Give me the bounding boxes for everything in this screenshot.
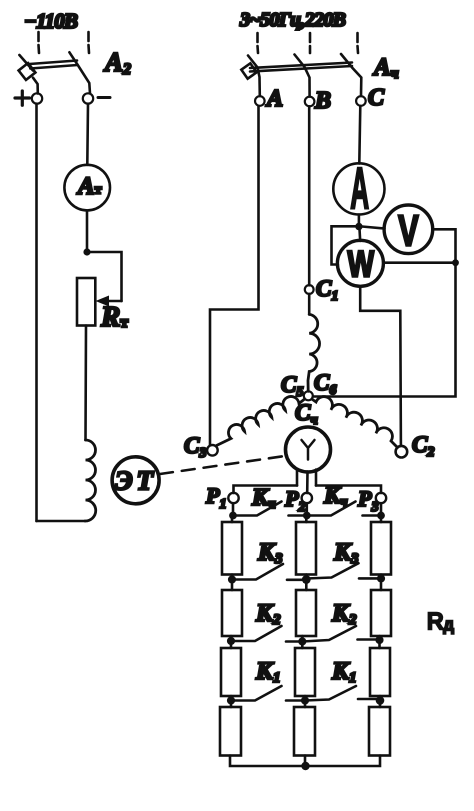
wire W voltage loop left <box>332 226 356 264</box>
supply dash left <box>37 32 40 53</box>
wire phase A down <box>210 106 259 445</box>
wires dots to resistors row1 <box>232 519 381 522</box>
wire A to dot <box>358 215 361 225</box>
dots K2 row <box>227 636 384 646</box>
terminal P2 <box>284 486 312 515</box>
wire C1 to coil <box>308 294 311 315</box>
terminal C3 <box>184 433 218 461</box>
rotor bus right <box>316 486 381 494</box>
wire phase B down <box>308 106 311 285</box>
contact K1 a <box>231 686 305 701</box>
wire ammeter to dot <box>86 210 89 250</box>
supply dash B <box>309 33 312 53</box>
terminal phase C <box>356 85 385 111</box>
wire rheostat to coil <box>84 326 87 441</box>
stator coil B (3 bumps) <box>308 314 320 391</box>
stator coil left (slanted) <box>217 397 305 446</box>
wire tap: right and down <box>87 252 122 301</box>
terminal P3 <box>357 486 386 515</box>
resistor bank row 2 <box>222 590 391 636</box>
motor Y <box>286 427 331 472</box>
tap arrow into rheostat <box>96 296 122 307</box>
wire dot to W <box>358 229 361 241</box>
supply dash right <box>87 32 90 53</box>
wire dot to V <box>362 227 385 229</box>
machine ET <box>112 457 159 504</box>
motor leg left <box>296 470 299 486</box>
switch A2 <box>19 52 90 93</box>
wire W bottom to C2 <box>360 286 401 445</box>
contact K3 a <box>232 564 302 580</box>
wire phase C down <box>359 106 360 164</box>
wire right down to star point <box>313 263 456 397</box>
inductor L (4 bumps) <box>85 440 96 521</box>
wires P to dots <box>233 503 381 512</box>
dots K1 row <box>227 696 384 705</box>
dots K3 row <box>228 574 385 583</box>
terminal P1 <box>205 483 239 512</box>
terminal - <box>83 93 110 103</box>
dots K4 row <box>229 512 385 520</box>
terminal C1 <box>305 276 339 304</box>
contact K1 b <box>305 686 380 701</box>
wires row3 to dots <box>231 696 380 698</box>
star point terminal <box>304 391 313 400</box>
bottom star bus <box>230 756 380 767</box>
contact K4 a <box>233 502 307 516</box>
wires row2 to dots <box>231 636 380 638</box>
resistor bank row 3 <box>221 648 390 696</box>
supply dash C <box>356 33 359 53</box>
resistor bank row 1 <box>222 522 391 575</box>
ammeter AT <box>64 165 110 211</box>
junction dot right <box>452 259 459 266</box>
svg-text:−110В: −110В <box>24 9 78 33</box>
contact K2 a <box>231 626 302 642</box>
motor leg middle <box>306 472 309 494</box>
rotor bus left <box>234 486 298 494</box>
svg-text:В: В <box>314 88 331 114</box>
svg-text:W: W <box>348 243 375 285</box>
svg-text:С: С <box>368 85 385 111</box>
wires row1 to dots <box>232 575 381 578</box>
stator coil right (slanted) <box>313 397 398 448</box>
switch A4 (3-pole) <box>241 54 361 97</box>
terminal C2 <box>396 432 435 460</box>
wire left down <box>35 104 38 521</box>
svg-text:V: V <box>398 207 419 256</box>
wire bottom left <box>37 520 86 523</box>
wattmeter W <box>337 240 383 286</box>
rheostat RT body <box>77 278 95 326</box>
wires dots to row2 <box>232 583 381 590</box>
mechanical link dashed <box>160 456 285 474</box>
contact K4 b <box>307 502 381 516</box>
svg-text:А: А <box>265 86 283 112</box>
contact K3 b <box>306 563 381 578</box>
ammeter A <box>333 156 384 222</box>
wire V right <box>433 229 456 260</box>
svg-text:3~50Гц,220В: 3~50Гц,220В <box>239 9 346 31</box>
terminal + <box>15 91 42 105</box>
junction dot C phase <box>355 223 362 230</box>
voltmeter V <box>384 205 433 256</box>
wire switch to ammeter <box>86 104 89 165</box>
wires dots to row3 <box>231 644 380 648</box>
bottom junction dot <box>301 762 309 770</box>
svg-text:А: А <box>350 156 369 222</box>
wire W right <box>384 261 456 264</box>
contact K2 b <box>302 626 379 642</box>
motor leg right <box>315 470 318 486</box>
wires dots to row4 <box>231 704 380 707</box>
junction dot <box>83 248 90 255</box>
resistor bank row 4 <box>220 707 390 756</box>
terminal phase A <box>255 86 283 112</box>
supply dash A <box>256 33 259 53</box>
terminal phase B <box>305 88 331 114</box>
